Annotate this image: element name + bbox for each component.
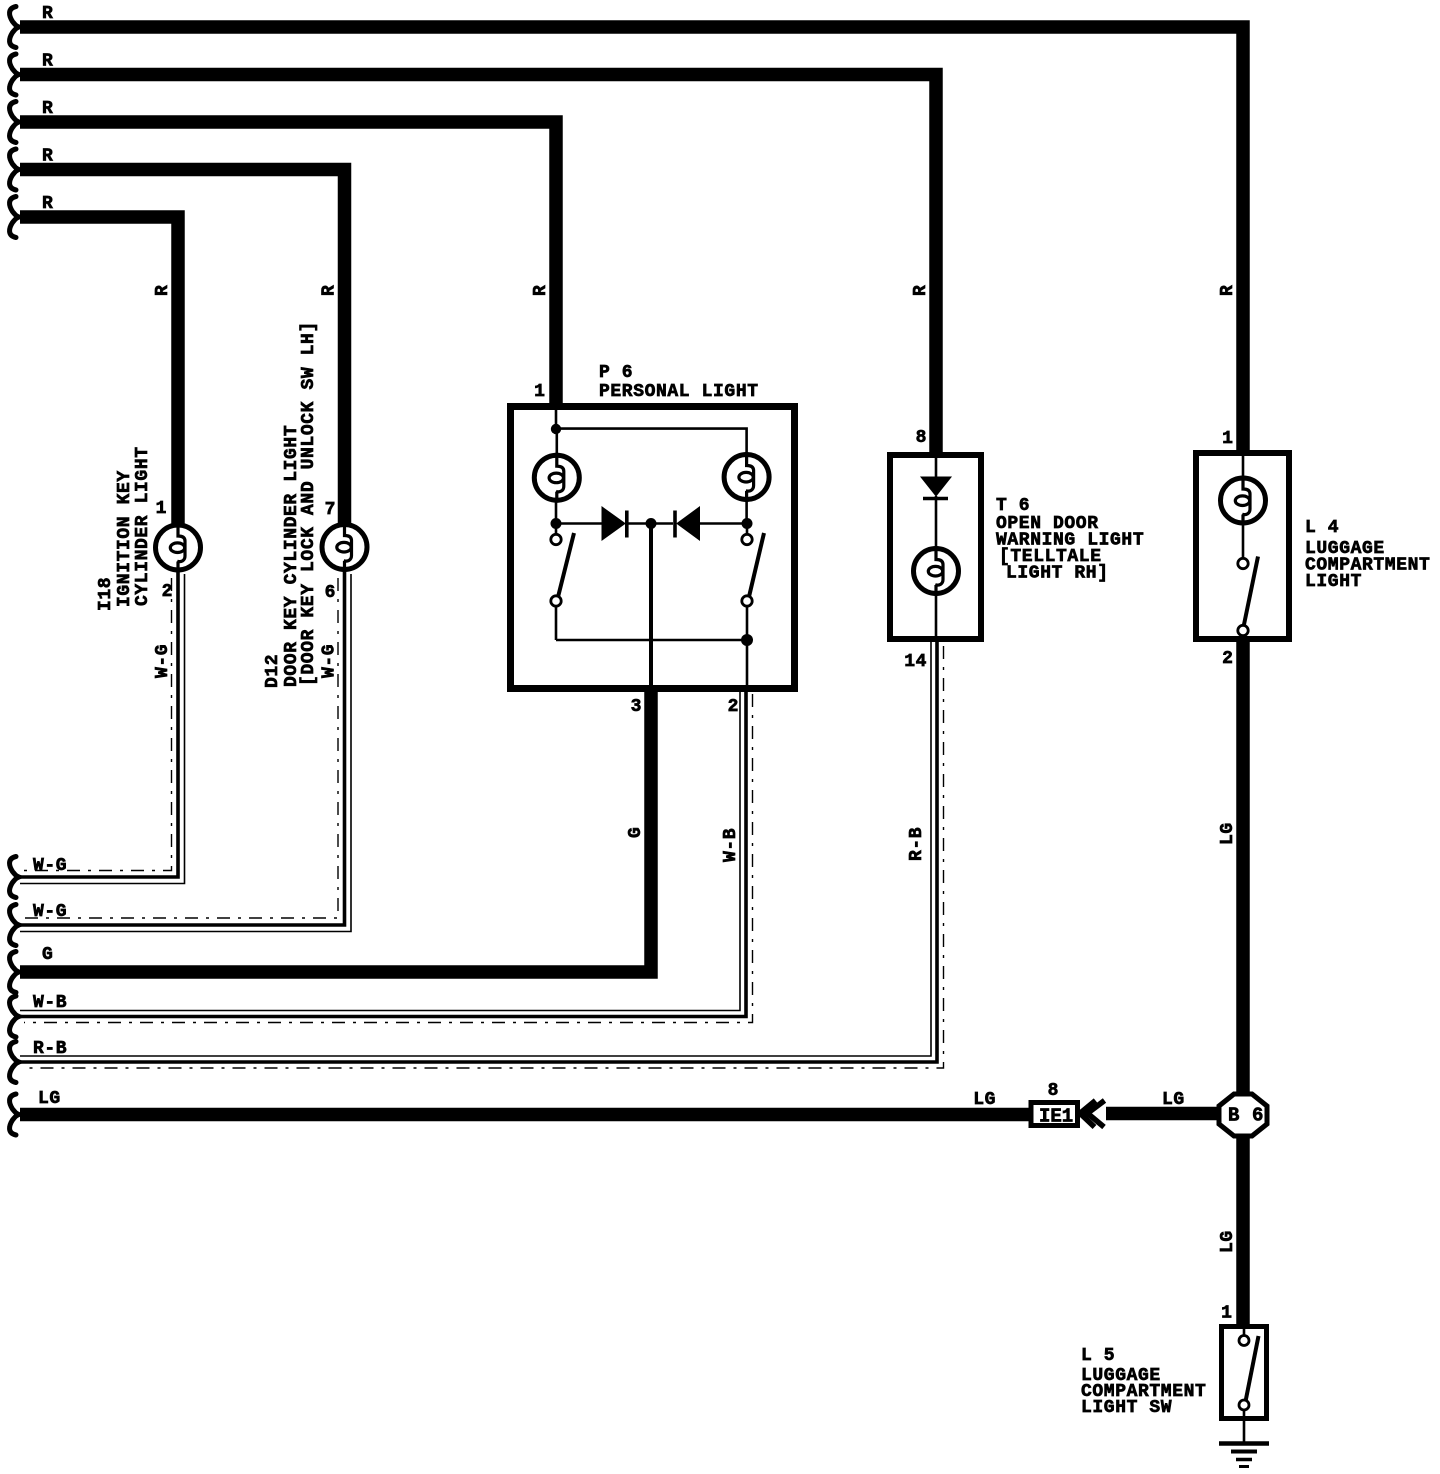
switch P6 right — [742, 528, 764, 640]
component label L5 — [1081, 1346, 1206, 1418]
svg-text:L 4: L 4 — [1305, 518, 1339, 538]
svg-text:LG: LG — [1218, 822, 1238, 845]
lamp T6 — [914, 546, 959, 596]
connector box T6 — [890, 455, 981, 639]
wire right to pin 2 — [746, 640, 749, 688]
svg-text:6: 6 — [325, 583, 336, 603]
wire lamp to pin 14 T6 — [935, 596, 938, 640]
svg-text:L 5: L 5 — [1081, 1346, 1115, 1366]
svg-text:1: 1 — [1221, 1304, 1232, 1324]
continuation coil W-G 2 — [10, 905, 19, 946]
svg-text:R: R — [42, 147, 53, 167]
svg-text:R: R — [42, 52, 53, 72]
wire W-G from I18 pin 2 to left edge — [20, 570, 185, 884]
svg-text:14: 14 — [904, 652, 927, 672]
component label D12 — [263, 321, 319, 688]
wire LG from L4 pin 2 to B6 — [1236, 640, 1250, 1093]
svg-text:2: 2 — [728, 697, 739, 717]
wire R feeder 2 (to T6 pin 8) — [20, 75, 936, 459]
svg-text:CYLINDER LIGHT: CYLINDER LIGHT — [133, 446, 153, 606]
diode P6 right — [675, 507, 700, 540]
svg-text:LIGHT SW: LIGHT SW — [1081, 1398, 1172, 1418]
switch L4 — [1238, 557, 1258, 643]
wire R feeder 5 (to I18 pin 1) — [20, 217, 178, 527]
wire W-G from D12 pin 6 to left edge — [20, 570, 351, 932]
wire R feeder 3 (to P6 pin 1) — [20, 122, 556, 410]
switch L5 — [1239, 1327, 1259, 1410]
wire LG from B6 to L5 — [1236, 1136, 1250, 1327]
diode T6 — [921, 477, 951, 499]
svg-text:R: R — [153, 285, 173, 296]
svg-text:G: G — [42, 945, 53, 965]
node diode rail center — [646, 518, 657, 529]
wire inside P6 from pin1 — [555, 409, 558, 429]
lamp L4 — [1221, 476, 1266, 526]
connector box P6 — [511, 407, 795, 689]
svg-text:LIGHT: LIGHT — [1305, 572, 1362, 592]
wire diode to lamp T6 — [935, 496, 938, 547]
svg-text:R-B: R-B — [33, 1039, 67, 1059]
svg-text:R-B: R-B — [907, 827, 927, 861]
continuation coil R-B — [10, 1042, 19, 1083]
svg-text:LIGHT RH]: LIGHT RH] — [1006, 564, 1109, 584]
svg-text:W-G: W-G — [33, 856, 67, 876]
continuation coil LG — [10, 1094, 19, 1135]
svg-text:P 6: P 6 — [599, 363, 633, 383]
svg-text:LG: LG — [973, 1090, 996, 1110]
svg-text:1: 1 — [534, 382, 545, 402]
wire R-B from T6 pin 14 to left edge — [20, 642, 944, 1068]
svg-text:IGNITION KEY: IGNITION KEY — [115, 470, 135, 607]
wire center to pin 3 — [649, 524, 653, 689]
svg-text:1: 1 — [1222, 429, 1233, 449]
wire right lamp to diode rail — [745, 502, 748, 524]
node junction top rail left — [551, 424, 561, 434]
svg-text:R: R — [42, 194, 53, 214]
svg-text:G: G — [626, 827, 646, 838]
node diode rail left — [551, 518, 562, 529]
node diode rail right — [742, 518, 753, 529]
svg-text:3: 3 — [631, 697, 642, 717]
chevron arrows at IE1 — [1080, 1101, 1105, 1128]
svg-text:W-B: W-B — [33, 993, 67, 1013]
continuation coil W-G 1 — [10, 857, 19, 898]
lamp I18 ignition key cylinder light — [156, 523, 201, 573]
connector octagon B6 — [1219, 1094, 1267, 1136]
wire inside L4 top — [1242, 456, 1245, 476]
svg-text:LG: LG — [1162, 1090, 1185, 1110]
continuation coil wire 3 — [10, 102, 19, 143]
connector box L5 — [1222, 1327, 1267, 1419]
svg-text:B 6: B 6 — [1228, 1105, 1264, 1127]
wire bottom rail P6 — [556, 639, 747, 642]
wire to left lamp P6 — [555, 429, 558, 454]
lamp D12 door key cylinder light — [322, 522, 367, 572]
wire LG from IE1 to left edge — [20, 1108, 1029, 1122]
connector IE1 — [1031, 1103, 1078, 1128]
wire L5 to ground — [1243, 1410, 1246, 1443]
diode P6 left — [602, 507, 627, 540]
wire G from P6 pin 3 to left edge — [20, 690, 651, 972]
component label T6 — [996, 496, 1144, 584]
continuation coil wire 5 — [10, 197, 19, 238]
wire LG from B6 to chevrons — [1106, 1107, 1220, 1121]
component label I18 — [96, 446, 153, 611]
svg-text:8: 8 — [1048, 1081, 1059, 1101]
svg-text:LG: LG — [38, 1089, 61, 1109]
lamp P6 right — [724, 452, 769, 502]
wire left lamp to diode rail — [555, 502, 558, 524]
switch P6 left — [551, 528, 574, 640]
component label P6 — [599, 363, 759, 402]
wire diode rail segments — [556, 522, 742, 525]
component label L4 — [1305, 518, 1430, 592]
svg-text:R: R — [320, 285, 340, 296]
svg-text:LG: LG — [1218, 1230, 1238, 1253]
continuation coil G — [10, 952, 19, 993]
wire R feeder 4 (to D12 pin 7) — [20, 170, 345, 528]
lamp P6 left — [534, 453, 579, 503]
connector box L4 — [1196, 453, 1289, 639]
svg-text:8: 8 — [916, 428, 927, 448]
svg-text:I18: I18 — [96, 577, 116, 611]
ground — [1219, 1444, 1269, 1467]
continuation coil W-B — [10, 996, 19, 1037]
wire inside T6 top — [935, 458, 938, 477]
svg-text:R: R — [1218, 285, 1238, 296]
wire lamp to switch L4 — [1242, 525, 1245, 558]
wire R feeder 1 (to L4 pin 1) — [20, 27, 1243, 453]
svg-text:W-G: W-G — [33, 902, 67, 922]
svg-text:[DOOR KEY LOCK AND UNLOCK SW L: [DOOR KEY LOCK AND UNLOCK SW LH] — [299, 321, 319, 686]
svg-text:PERSONAL LIGHT: PERSONAL LIGHT — [599, 382, 759, 402]
node bottom rail right — [741, 634, 753, 646]
svg-text:2: 2 — [1222, 649, 1233, 669]
svg-text:W-G: W-G — [153, 644, 173, 678]
svg-text:R: R — [531, 285, 551, 296]
svg-text:1: 1 — [156, 499, 167, 519]
svg-text:W-G: W-G — [320, 644, 340, 678]
wire W-B from P6 pin 2 to left edge — [20, 690, 753, 1023]
continuation coil wire 1 — [10, 7, 19, 48]
svg-text:R: R — [42, 99, 53, 119]
svg-text:W-B: W-B — [721, 828, 741, 862]
svg-text:R: R — [911, 285, 931, 296]
svg-text:T 6: T 6 — [996, 496, 1030, 516]
svg-text:IE1: IE1 — [1039, 1106, 1073, 1128]
continuation coil wire 2 — [10, 54, 19, 95]
svg-text:R: R — [42, 4, 53, 24]
svg-text:7: 7 — [325, 500, 336, 520]
continuation coil wire 4 — [10, 149, 19, 190]
svg-text:D12: D12 — [263, 654, 283, 688]
wire top rail P6 — [556, 429, 747, 453]
